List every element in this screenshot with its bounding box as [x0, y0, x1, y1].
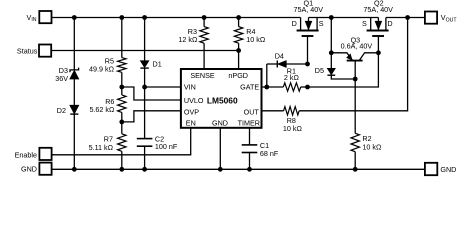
junction gnd/R2: [353, 167, 358, 172]
svg-text:VOUT: VOUT: [441, 13, 458, 23]
wire R2 to gnd: [354, 152, 356, 170]
resistor R4: [234, 27, 242, 44]
wire D4 branch up: [266, 64, 268, 87]
svg-text:68 nF: 68 nF: [260, 149, 279, 158]
junction gnd/GND-pin: [218, 167, 223, 172]
svg-text:OVP: OVP: [184, 108, 199, 117]
svg-text:OUT: OUT: [244, 108, 260, 117]
resistor R2: [351, 133, 359, 151]
svg-text:VIN: VIN: [184, 82, 196, 91]
resistor R6: [118, 95, 126, 113]
diode D1: [140, 61, 148, 68]
svg-text:SENSE: SENSE: [190, 71, 215, 80]
svg-text:GND: GND: [212, 119, 228, 128]
resistor R3: [200, 27, 208, 44]
capacitor C1: [242, 144, 258, 146]
junction rail/D1: [142, 15, 147, 20]
wire Enable line: [51, 128, 191, 155]
wire D4 left lead: [267, 63, 278, 65]
svg-text:EN: EN: [186, 119, 196, 128]
transistor Q2 symbol: [370, 18, 372, 30]
wire D4 right lead: [286, 63, 307, 65]
junction gnd/C2: [142, 167, 147, 172]
junction GATE/D4/R1: [264, 85, 269, 90]
terminal VIN: [39, 11, 51, 23]
svg-text:0.6A, 40V: 0.6A, 40V: [341, 42, 373, 51]
svg-text:TIMER: TIMER: [238, 119, 260, 128]
junction Q2gate/Q3collector: [376, 50, 381, 55]
wire GND pin to rail: [219, 128, 221, 170]
svg-text:49.9 kΩ: 49.9 kΩ: [89, 64, 115, 73]
wire rail to D1: [144, 18, 146, 61]
wire Q3 base to R2: [354, 79, 356, 133]
svg-text:10 kΩ: 10 kΩ: [283, 124, 303, 133]
capacitor C2: [137, 138, 153, 140]
svg-text:75A, 40V: 75A, 40V: [294, 5, 324, 14]
svg-text:Enable: Enable: [15, 150, 37, 159]
svg-text:VIN: VIN: [27, 13, 37, 23]
resistor R7: [118, 134, 126, 152]
wire D2 to gnd: [73, 114, 75, 169]
svg-text:12 kΩ: 12 kΩ: [178, 35, 198, 44]
wire D1 to VIN-pin row: [144, 68, 146, 87]
svg-text:S: S: [362, 19, 367, 28]
wire rail to node A: [330, 18, 332, 53]
wire D5 to base node: [331, 75, 355, 79]
junction gnd/C1: [247, 167, 252, 172]
svg-text:nPGD: nPGD: [228, 71, 248, 80]
wire rail to R3: [203, 18, 205, 27]
wire rail Q1S-Q2S segment: [309, 17, 379, 19]
wire R3 to SENSE pin: [203, 43, 205, 69]
wire GATE pin: [262, 86, 267, 88]
junction gnd/R7: [119, 167, 124, 172]
wire OUT pin: [262, 110, 284, 112]
svg-text:S: S: [319, 19, 324, 28]
op-amp U1 LM5060 body: [181, 69, 262, 128]
zener D3: [70, 68, 79, 73]
wire OVP z: [122, 111, 181, 122]
transistor Q3 symbol: [347, 60, 363, 62]
svg-text:D: D: [387, 19, 392, 28]
wire gate run to Q2 gate: [308, 53, 379, 87]
svg-text:R7: R7: [104, 135, 113, 144]
junction R6/R7/OVP: [119, 120, 124, 125]
junction rail/D3: [72, 15, 77, 20]
wire junction to R7: [121, 122, 123, 134]
wire rail to D3: [73, 18, 75, 71]
terminal GND right: [425, 163, 437, 175]
svg-text:GND: GND: [440, 165, 456, 174]
terminal Enable: [39, 148, 51, 160]
transistor Q1 symbol: [300, 18, 302, 30]
svg-text:UVLO: UVLO: [184, 96, 204, 105]
junction rail/R5: [119, 15, 124, 20]
junction rail/R3: [202, 15, 207, 20]
wire R4 to nPGD pin: [238, 43, 240, 69]
wire rail to R4: [238, 18, 240, 27]
wire R7 to gnd: [121, 151, 123, 169]
junction D1/VIN pin: [142, 85, 147, 90]
wire R8 to VOUT sense: [299, 18, 408, 111]
svg-text:10 kΩ: 10 kΩ: [362, 142, 382, 151]
junction rail/VOUT-sense: [405, 15, 410, 20]
wire Q1 gate lead: [307, 37, 309, 64]
diode D5: [327, 68, 335, 74]
junction rail/nodeA: [329, 15, 334, 20]
wire R1 left lead: [267, 86, 284, 88]
junction D5/Q3 base: [353, 77, 358, 82]
svg-text:100 nF: 100 nF: [155, 142, 178, 151]
svg-text:10 kΩ: 10 kΩ: [246, 35, 266, 44]
wire junction to R6: [121, 87, 123, 95]
svg-text:75A, 40V: 75A, 40V: [363, 5, 393, 14]
wire UVLO z: [122, 87, 181, 100]
junction gnd/D2: [72, 167, 77, 172]
wire D3 to D2: [73, 79, 75, 106]
resistor R5: [118, 58, 126, 73]
junction R1/Q1gate/gate-run: [305, 85, 310, 90]
diode D4: [276, 61, 278, 68]
svg-text:GATE: GATE: [240, 82, 259, 91]
svg-text:5.11 kΩ: 5.11 kΩ: [89, 143, 114, 152]
wire VIN rail left segment: [52, 17, 301, 19]
wire Status line: [51, 50, 238, 52]
wire R1 right lead: [301, 86, 308, 88]
terminal GND left: [39, 163, 51, 175]
junction rail/R4: [236, 15, 241, 20]
node A junction: [329, 50, 334, 55]
resistor R1: [283, 83, 300, 91]
svg-text:D: D: [292, 19, 297, 28]
svg-text:2 kΩ: 2 kΩ: [284, 73, 300, 82]
svg-text:36V: 36V: [55, 74, 68, 83]
junction R4/status/nPGD: [236, 48, 241, 53]
wire R6 to junction: [121, 112, 123, 122]
wire D1 junction to C2: [144, 87, 146, 139]
wire node A to D5: [330, 53, 332, 69]
resistor R8: [284, 107, 300, 115]
wire TIMER pin to C1: [249, 128, 251, 145]
svg-text:D4: D4: [275, 52, 284, 61]
wire rail Q2D-VOUT segment: [386, 17, 425, 19]
svg-text:GND: GND: [21, 164, 37, 173]
wire R5 to junction: [121, 72, 123, 87]
svg-text:Status: Status: [17, 46, 38, 55]
wire Q2 gate lead: [377, 37, 379, 53]
svg-text:D1: D1: [153, 60, 162, 69]
wire GND rail: [51, 168, 425, 170]
diode D2: [70, 105, 79, 114]
terminal VOUT: [425, 12, 437, 24]
svg-text:5.62 kΩ: 5.62 kΩ: [89, 105, 115, 114]
svg-text:D2: D2: [57, 106, 66, 115]
wire rail to R5: [121, 18, 123, 58]
svg-text:D5: D5: [315, 66, 324, 75]
terminal Status: [39, 45, 51, 57]
wire VIN pin: [145, 86, 181, 88]
svg-text:LM5060: LM5060: [207, 95, 238, 105]
junction D4/Q1 gate: [305, 62, 310, 67]
junction R5/R6/UVLO: [119, 85, 124, 90]
